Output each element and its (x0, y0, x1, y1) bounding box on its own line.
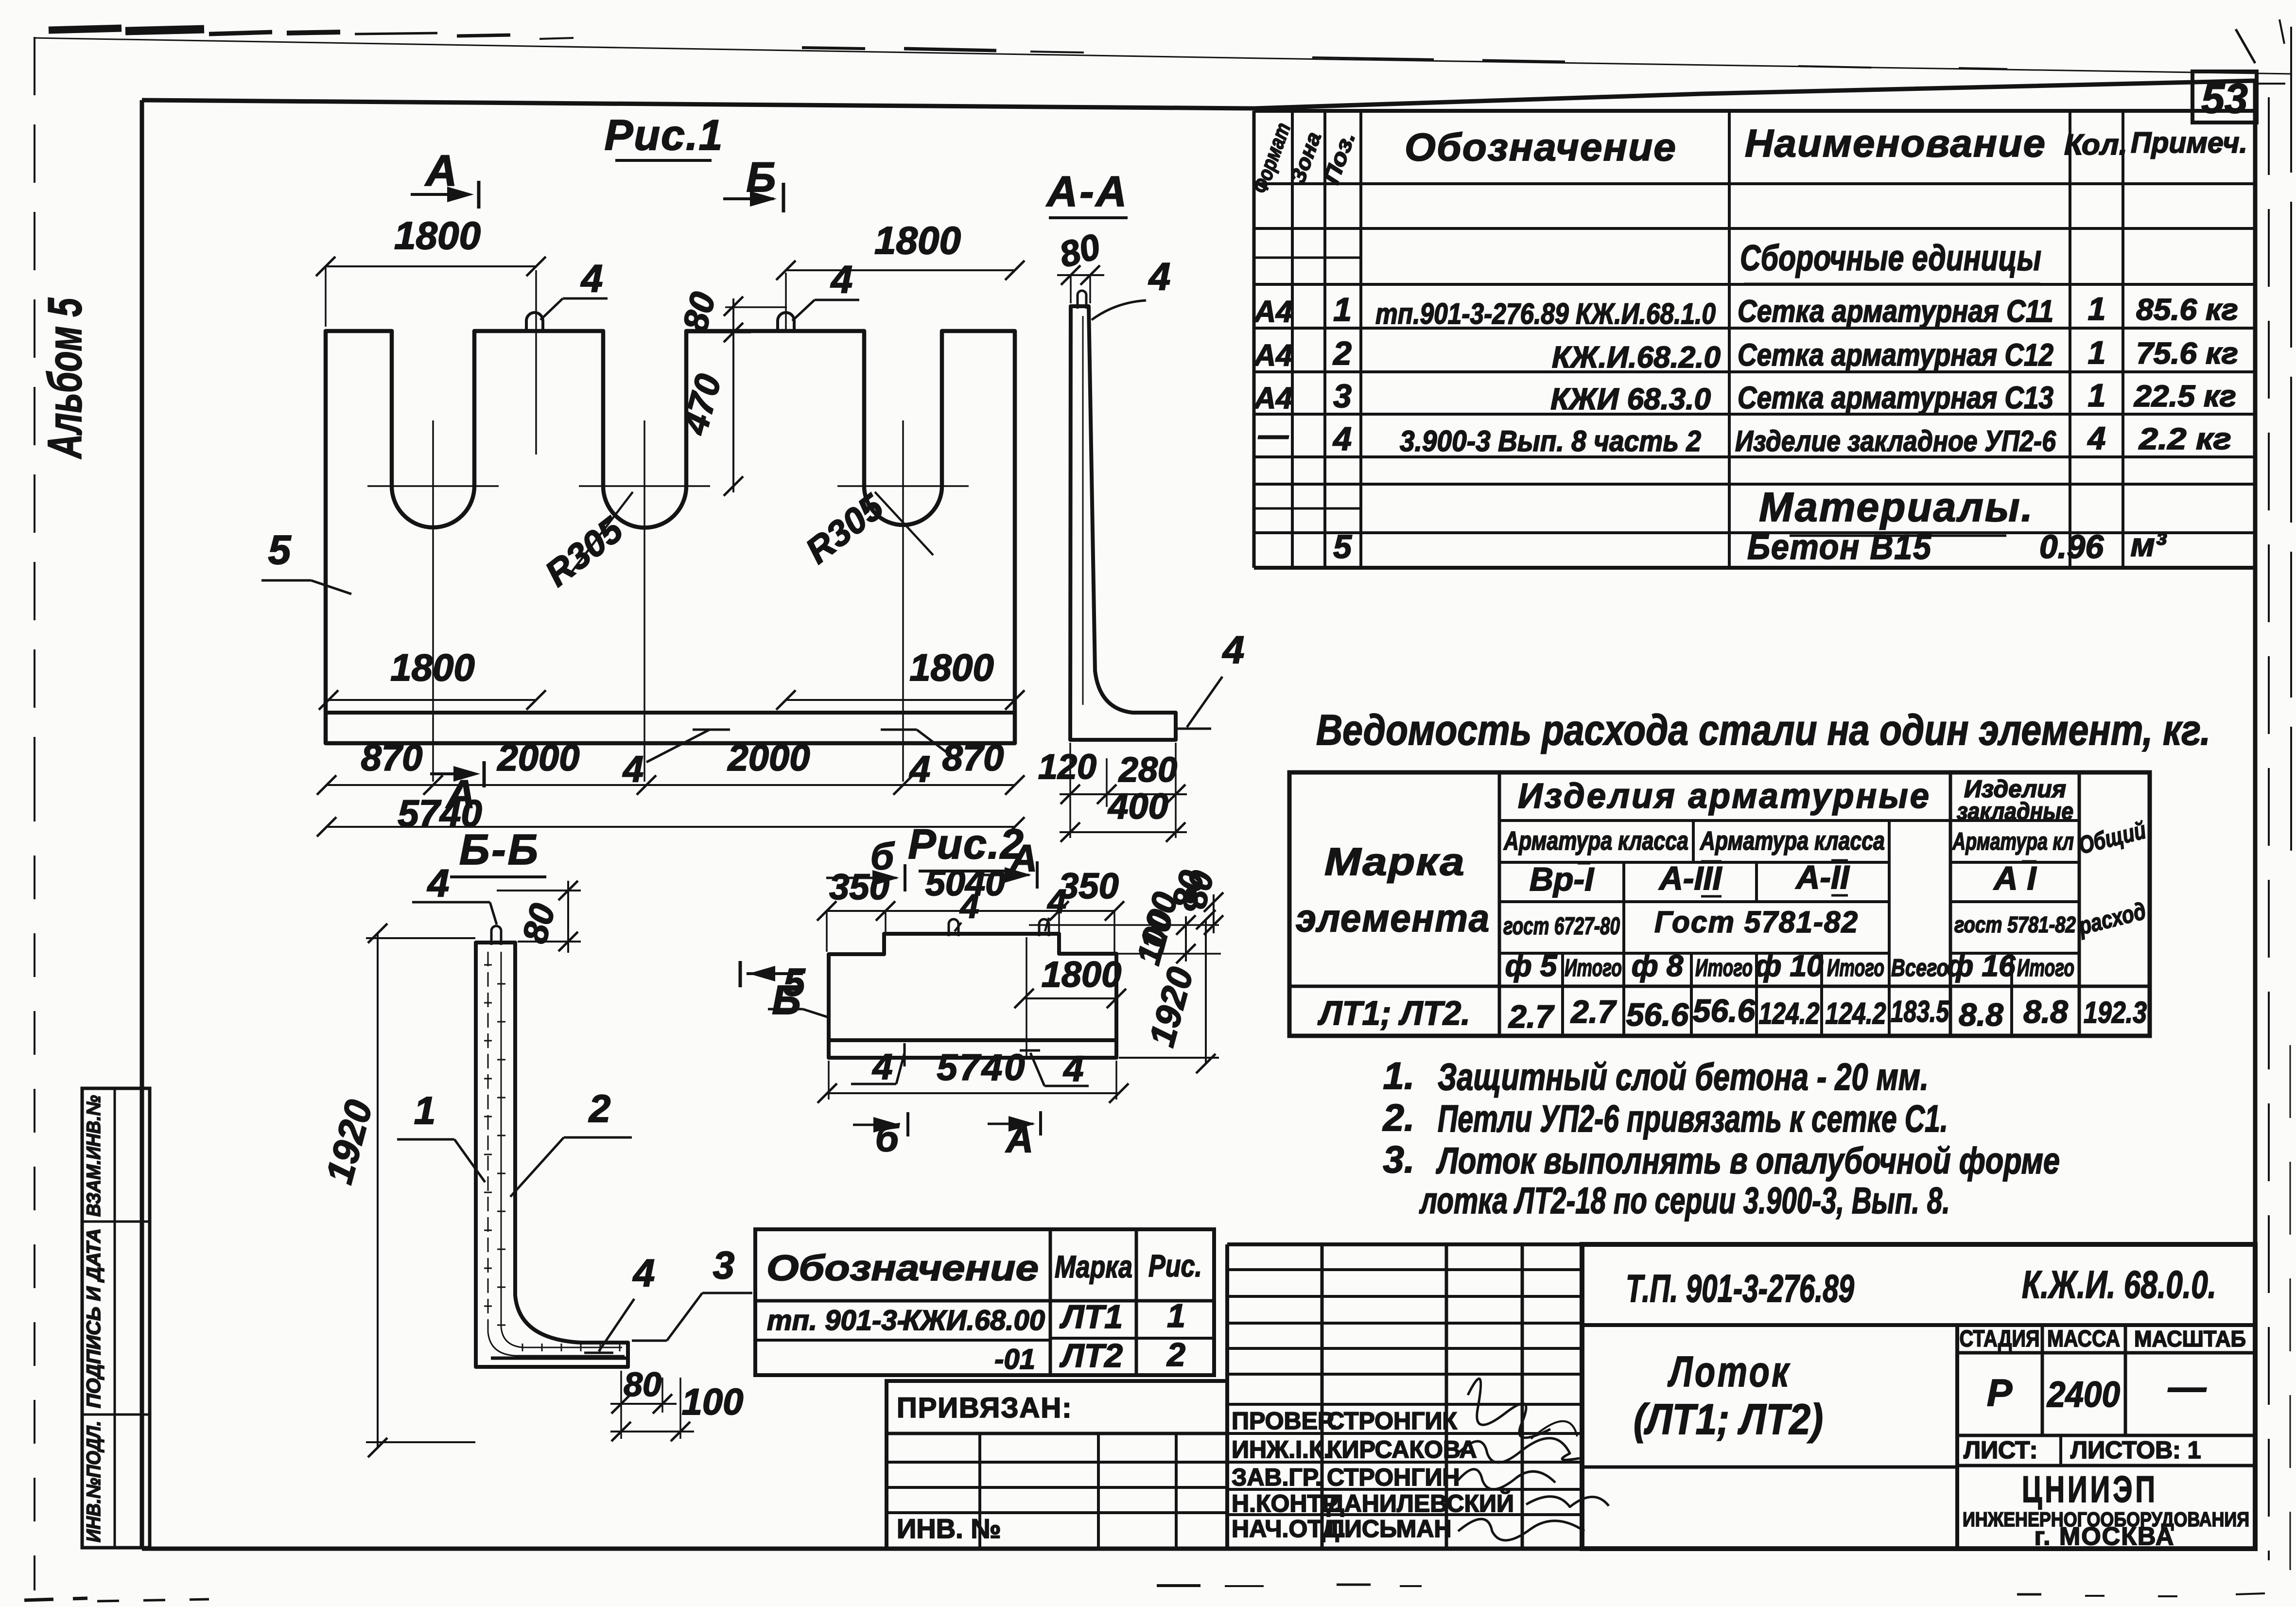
svg-text:СТРОНГИН: СТРОНГИН (1327, 1464, 1460, 1491)
svg-text:1920: 1920 (317, 1096, 381, 1188)
svg-text:1: 1 (2088, 377, 2106, 413)
svg-text:80: 80 (624, 1365, 661, 1403)
svg-text:R305: R305 (538, 509, 631, 594)
svg-text:Марка: Марка (1055, 1249, 1132, 1284)
svg-text:2: 2 (1332, 335, 1352, 372)
svg-text:элемента: элемента (1296, 896, 1490, 940)
svg-text:МАСШТАБ: МАСШТАБ (2134, 1326, 2246, 1351)
svg-text:4: 4 (632, 1251, 655, 1294)
svg-text:м³: м³ (2131, 526, 2167, 563)
svg-text:ф 10: ф 10 (1755, 949, 1823, 983)
svg-text:КЖИ 68.3.0: КЖИ 68.3.0 (1550, 383, 1711, 416)
svg-text:-01: -01 (994, 1344, 1035, 1375)
svg-text:А: А (425, 147, 457, 195)
svg-text:4: 4 (580, 257, 603, 300)
svg-text:тп. 901-3-: тп. 901-3- (767, 1305, 906, 1336)
svg-text:Рис.1: Рис.1 (605, 111, 724, 159)
svg-text:1800: 1800 (909, 646, 994, 689)
svg-text:ф 16: ф 16 (1947, 949, 2016, 983)
svg-text:870: 870 (361, 737, 423, 779)
svg-text:ЦНИИЭП: ЦНИИЭП (2022, 1469, 2158, 1510)
svg-text:ЛТ2: ЛТ2 (1059, 1337, 1123, 1374)
svg-text:3: 3 (1333, 378, 1352, 415)
svg-text:ЛТ1; ЛТ2.: ЛТ1; ЛТ2. (1317, 994, 1470, 1032)
svg-text:2.7: 2.7 (1570, 994, 1617, 1030)
svg-text:350: 350 (1059, 866, 1118, 906)
svg-text:ф 8: ф 8 (1632, 949, 1684, 983)
svg-text:Вр-I: Вр-I (1530, 861, 1595, 898)
svg-text:Наименование: Наименование (1745, 122, 2046, 165)
svg-text:Сетка арматурная С11: Сетка арматурная С11 (1738, 294, 2053, 329)
svg-text:4: 4 (830, 258, 853, 301)
svg-text:1: 1 (414, 1089, 436, 1132)
svg-text:Бетон В15: Бетон В15 (1747, 528, 1932, 567)
svg-text:Рис.2: Рис.2 (908, 821, 1024, 868)
svg-text:А4: А4 (1253, 382, 1292, 415)
svg-text:Итого: Итого (2017, 954, 2074, 981)
svg-text:ЛТ1: ЛТ1 (1059, 1298, 1123, 1335)
svg-text:Итого: Итого (1827, 954, 1884, 981)
svg-text:ИНВ.№ПОДЛ.: ИНВ.№ПОДЛ. (83, 1421, 104, 1542)
svg-text:3: 3 (713, 1243, 735, 1287)
svg-text:124.2: 124.2 (1759, 997, 1820, 1031)
svg-text:КИРСАКОВА: КИРСАКОВА (1327, 1436, 1477, 1463)
svg-text:56.6: 56.6 (1626, 996, 1689, 1032)
svg-text:Обозначение: Обозначение (1405, 125, 1677, 169)
svg-text:ПОДПИСЬ И ДАТА: ПОДПИСЬ И ДАТА (83, 1228, 104, 1408)
svg-text:Всего: Всего (1891, 954, 1948, 981)
svg-text:Сборочные единицы: Сборочные единицы (1740, 238, 2041, 278)
svg-text:5: 5 (783, 961, 806, 1004)
svg-text:Б-Б: Б-Б (459, 825, 540, 873)
svg-text:80: 80 (515, 900, 563, 947)
svg-text:4: 4 (1062, 1048, 1083, 1089)
svg-text:R305: R305 (798, 486, 891, 571)
svg-text:г. МОСКВА: г. МОСКВА (2035, 1522, 2175, 1551)
svg-text:2000: 2000 (496, 737, 579, 779)
svg-text:Лоток выполнять в опалубочной: Лоток выполнять в опалубочной форме (1436, 1140, 2060, 1182)
svg-text:Кол.: Кол. (2064, 128, 2127, 161)
svg-text:Т.П. 901-3-276.89: Т.П. 901-3-276.89 (1626, 1267, 1854, 1310)
svg-text:4: 4 (909, 749, 930, 790)
svg-text:А4: А4 (1253, 295, 1292, 329)
svg-text:1: 1 (2088, 291, 2106, 327)
svg-text:КЖИ.68.00: КЖИ.68.00 (903, 1305, 1045, 1336)
svg-text:СТАДИЯ: СТАДИЯ (1960, 1326, 2040, 1352)
svg-text:5740: 5740 (937, 1047, 1026, 1088)
svg-text:120: 120 (1038, 748, 1096, 786)
svg-text:1: 1 (1167, 1297, 1185, 1334)
svg-text:ИНВ. №: ИНВ. № (897, 1513, 1001, 1544)
svg-text:1: 1 (1333, 291, 1352, 328)
svg-text:Итого: Итого (1565, 954, 1622, 981)
svg-text:1800: 1800 (390, 646, 475, 689)
svg-text:183.5: 183.5 (1891, 995, 1949, 1029)
svg-text:1.: 1. (1383, 1054, 1414, 1097)
svg-text:ПРОВЕР.: ПРОВЕР. (1232, 1407, 1337, 1434)
svg-text:Изделие закладное УП2-6: Изделие закладное УП2-6 (1735, 425, 2056, 457)
svg-text:А-А: А-А (1046, 167, 1129, 215)
svg-text:3.900-3 Вып. 8 часть 2: 3.900-3 Вып. 8 часть 2 (1400, 425, 1701, 457)
svg-text:А4: А4 (1253, 339, 1292, 372)
svg-text:КЖ.И.68.2.0: КЖ.И.68.2.0 (1552, 341, 1721, 374)
svg-text:Сетка арматурная С13: Сетка арматурная С13 (1738, 380, 2053, 415)
svg-text:5: 5 (268, 527, 292, 573)
svg-text:1: 1 (2088, 334, 2106, 370)
svg-text:2.2 кг: 2.2 кг (2139, 422, 2231, 456)
svg-text:350: 350 (829, 867, 889, 907)
svg-text:ИНЖ.I.К.: ИНЖ.I.К. (1232, 1436, 1330, 1463)
svg-text:Общий: Общий (2076, 816, 2148, 859)
svg-text:Альбом 5: Альбом 5 (38, 297, 91, 459)
svg-text:СТРОНГИК: СТРОНГИК (1327, 1407, 1457, 1434)
svg-text:56.6: 56.6 (1693, 993, 1756, 1029)
svg-text:А-II: А-II (1795, 859, 1850, 896)
svg-text:75.6 кг: 75.6 кг (2136, 337, 2238, 370)
svg-text:1920: 1920 (1141, 963, 1201, 1050)
svg-text:гост 5781-82: гост 5781-82 (1954, 912, 2076, 937)
svg-text:Лоток: Лоток (1667, 1347, 1791, 1396)
svg-text:124.2: 124.2 (1826, 997, 1886, 1031)
svg-text:А: А (445, 772, 475, 817)
svg-text:Рис.: Рис. (1148, 1248, 1202, 1283)
svg-text:1800: 1800 (874, 219, 961, 262)
svg-text:ЛИСТОВ: 1: ЛИСТОВ: 1 (2070, 1436, 2201, 1464)
svg-text:закладные: закладные (1957, 798, 2073, 825)
svg-text:3.: 3. (1383, 1138, 1414, 1181)
svg-text:2400: 2400 (2046, 1374, 2120, 1415)
svg-text:—: — (1258, 419, 1289, 452)
svg-text:4: 4 (1222, 628, 1245, 671)
svg-text:53: 53 (2201, 75, 2248, 122)
svg-text:Изделия арматурные: Изделия арматурные (1518, 777, 1931, 816)
svg-text:ВЗАМ.ИНВ.№: ВЗАМ.ИНВ.№ (83, 1095, 104, 1217)
svg-text:8.8: 8.8 (2023, 994, 2068, 1030)
svg-text:А I: А I (1993, 860, 2037, 897)
svg-text:расход: расход (2075, 897, 2149, 940)
svg-text:8.8: 8.8 (1959, 996, 2003, 1032)
svg-text:4: 4 (1332, 420, 1352, 457)
svg-text:1800: 1800 (394, 214, 481, 257)
svg-text:Н.КОНТР.: Н.КОНТР. (1232, 1490, 1341, 1517)
svg-text:2: 2 (1166, 1336, 1185, 1373)
svg-text:5: 5 (1333, 528, 1352, 565)
svg-text:4: 4 (959, 887, 979, 925)
svg-text:4: 4 (427, 861, 450, 905)
svg-text:0.96: 0.96 (2039, 528, 2105, 565)
svg-text:2000: 2000 (727, 737, 810, 779)
svg-text:Арматура кл: Арматура кл (1951, 828, 2074, 855)
svg-text:Арматура класса: Арматура класса (1503, 826, 1688, 856)
svg-text:Сетка арматурная С12: Сетка арматурная С12 (1738, 337, 2053, 372)
svg-text:Примеч.: Примеч. (2131, 126, 2247, 159)
svg-text:Гост 5781-82: Гост 5781-82 (1654, 906, 1859, 939)
svg-text:ЗАВ.ГР.: ЗАВ.ГР. (1232, 1464, 1322, 1491)
svg-text:400: 400 (1107, 786, 1168, 826)
svg-text:Итого: Итого (1695, 954, 1753, 981)
svg-text:Петли УП2-6 привязать к сетке: Петли УП2-6 привязать к сетке С1. (1438, 1097, 1948, 1140)
svg-text:192.3: 192.3 (2084, 996, 2147, 1030)
svg-text:Арматура класса: Арматура класса (1699, 826, 1885, 856)
svg-text:лотка ЛТ2-18 по серии 3.900-3,: лотка ЛТ2-18 по серии 3.900-3, Вып. 8. (1419, 1180, 1950, 1222)
svg-text:2: 2 (588, 1087, 611, 1130)
svg-text:4: 4 (2087, 420, 2106, 456)
svg-text:22.5 кг: 22.5 кг (2134, 380, 2236, 413)
svg-text:(ЛТ1; ЛТ2): (ЛТ1; ЛТ2) (1634, 1395, 1823, 1443)
svg-text:К.Ж.И. 68.0.0.: К.Ж.И. 68.0.0. (2022, 1263, 2216, 1306)
svg-text:тп.901-3-276.89 КЖ.И.68.1.0: тп.901-3-276.89 КЖ.И.68.1.0 (1375, 297, 1716, 330)
svg-text:2.: 2. (1382, 1096, 1414, 1139)
svg-text:4: 4 (622, 749, 644, 790)
svg-text:100: 100 (1130, 906, 1180, 968)
svg-text:4: 4 (1148, 255, 1171, 298)
svg-text:280: 280 (1118, 751, 1177, 789)
svg-text:Р: Р (1987, 1371, 2013, 1414)
svg-text:4: 4 (1047, 882, 1067, 920)
svg-text:4: 4 (871, 1047, 892, 1087)
svg-text:85.6 кг: 85.6 кг (2136, 293, 2238, 327)
svg-text:Защитный слой бетона - 20 мм.: Защитный слой бетона - 20 мм. (1438, 1055, 1929, 1098)
svg-text:Ведомость расхода стали на оди: Ведомость расхода стали на один элемент,… (1316, 706, 2210, 754)
svg-text:1800: 1800 (1042, 954, 1122, 995)
svg-text:ЛИСТ:: ЛИСТ: (1964, 1436, 2037, 1464)
svg-text:80: 80 (676, 288, 723, 336)
svg-text:ДАНИЛЕВСКИЙ: ДАНИЛЕВСКИЙ (1327, 1489, 1514, 1517)
svg-text:МАССА: МАССА (2047, 1326, 2120, 1352)
svg-text:2.7: 2.7 (1508, 998, 1555, 1034)
svg-text:А-III: А-III (1658, 860, 1723, 897)
svg-text:470: 470 (674, 370, 729, 439)
svg-text:870: 870 (942, 737, 1004, 779)
svg-text:гост 6727-80: гост 6727-80 (1503, 912, 1620, 940)
svg-text:100: 100 (682, 1381, 744, 1423)
svg-text:Обозначение: Обозначение (766, 1248, 1039, 1288)
svg-text:—: — (2168, 1365, 2207, 1408)
svg-text:ф 5: ф 5 (1505, 949, 1558, 983)
svg-text:Марка: Марка (1324, 840, 1465, 883)
svg-text:Материалы.: Материалы. (1759, 484, 2034, 530)
svg-text:ПРИВЯЗАН:: ПРИВЯЗАН: (897, 1392, 1073, 1424)
svg-text:ПИСЬМАН: ПИСЬМАН (1327, 1515, 1452, 1542)
